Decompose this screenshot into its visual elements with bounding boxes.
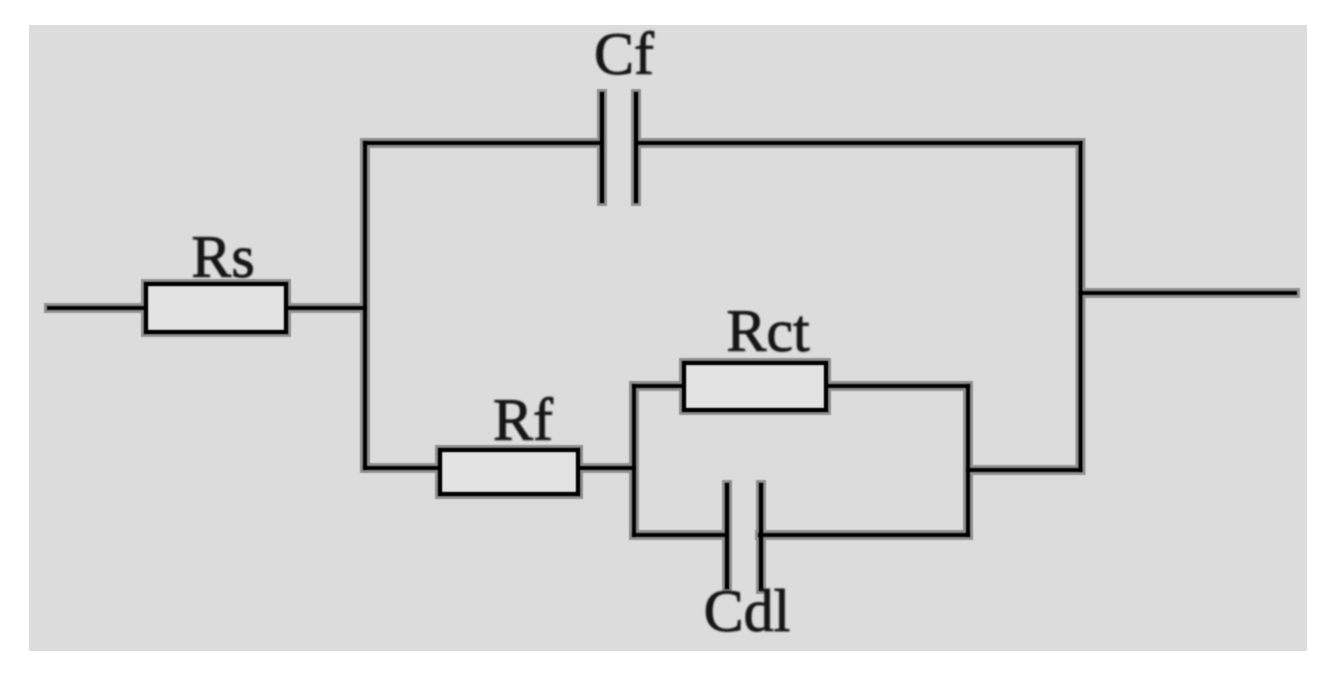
svg-text:Rf: Rf [493,387,553,453]
svg-text:Cdl: Cdl [704,578,791,644]
svg-text:Cf: Cf [594,21,654,87]
svg-text:Rs: Rs [191,224,254,290]
svg-text:Rct: Rct [726,298,810,364]
